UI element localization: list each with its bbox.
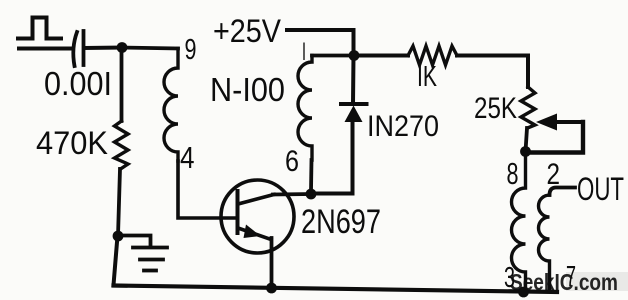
wire: node A to transformer T1 pin 9 xyxy=(122,48,178,49)
node D junction dot xyxy=(520,146,531,157)
wire: Q1 emitter to bottom rail xyxy=(270,238,274,289)
wire: T1 pin 6 to node C xyxy=(309,160,313,191)
svg-text:IK: IK xyxy=(417,61,437,93)
resistor R2 1K xyxy=(408,46,457,65)
wire: capacitor to node A xyxy=(85,46,122,51)
wire: resistor R1 to ground node xyxy=(118,169,120,236)
svg-text:SeekIC.com: SeekIC.com xyxy=(510,269,618,295)
wire: input to capacitor C1 xyxy=(19,47,72,51)
wire: ground node to bottom rail xyxy=(114,236,118,285)
node B junction dot xyxy=(349,50,360,61)
wire: bottom ground rail xyxy=(114,286,558,293)
wire: node B to diode D1 cathode xyxy=(351,56,356,105)
svg-text:IN270: IN270 xyxy=(367,110,439,143)
svg-text:4: 4 xyxy=(180,140,195,175)
wire: T1 pin 4 to Q1 base xyxy=(178,161,236,218)
transformer T1 secondary winding pin 1 to pin 6 xyxy=(298,56,312,161)
ground symbol xyxy=(118,236,167,271)
svg-text:9: 9 xyxy=(185,34,197,66)
svg-text:0.00I: 0.00I xyxy=(44,65,112,102)
wire: T2 pin 2 to OUT xyxy=(550,188,576,196)
wire: wiper loop to node D xyxy=(527,122,583,153)
svg-text:8: 8 xyxy=(507,156,519,191)
node F emitter junction dot xyxy=(266,283,277,294)
diode D1 1N270 xyxy=(341,104,367,122)
node C junction dot xyxy=(306,189,317,200)
potentiometer R3 25K body xyxy=(521,87,535,128)
svg-text:N-I00: N-I00 xyxy=(210,71,285,108)
wire: Q1 collector to node C xyxy=(273,192,311,196)
transformer T2 primary winding pin 8 to pin 3 xyxy=(512,152,526,293)
node A junction dot xyxy=(117,42,128,53)
wire: diode D1 anode to node C xyxy=(311,121,353,194)
wire: node B to T1 pin 1 xyxy=(312,54,354,58)
transformer T2 secondary winding pin 2 to pin 7 xyxy=(539,195,550,291)
watermark background box xyxy=(566,272,628,291)
svg-text:OUT: OUT xyxy=(577,171,624,207)
wire: +25V to node B xyxy=(287,30,354,56)
node E junction dot on rail xyxy=(518,287,529,298)
wire: node A down to resistor R1 470K xyxy=(120,48,124,122)
wire: R3 bottom to node D xyxy=(526,128,528,152)
svg-text:2N697: 2N697 xyxy=(301,203,381,241)
svg-text:+25V: +25V xyxy=(213,13,282,49)
svg-text:25K: 25K xyxy=(474,92,517,125)
transistor Q1 2N697 xyxy=(221,180,294,253)
wire: node B to resistor R2 1K xyxy=(354,54,408,58)
svg-text:6: 6 xyxy=(285,145,299,178)
wire: R2 to potentiometer R3 25K xyxy=(457,56,528,88)
resistor R1 470K xyxy=(115,121,129,169)
potentiometer wiper arrow xyxy=(536,114,583,131)
svg-text:470K: 470K xyxy=(36,125,108,161)
capacitor C1 0.001 xyxy=(73,31,83,66)
ground node junction dot xyxy=(113,231,124,242)
input pulse symbol xyxy=(18,18,61,39)
transformer T1 primary winding pin 9 to pin 4 xyxy=(164,49,178,162)
